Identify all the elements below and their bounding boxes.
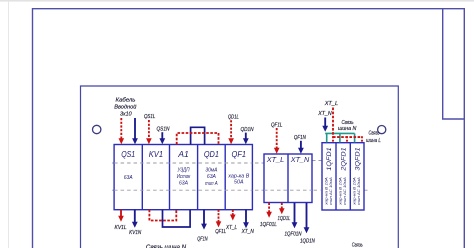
svg-text:QF1L: QF1L xyxy=(215,229,226,235)
svg-text:QS1N: QS1N xyxy=(156,127,170,133)
svg-text:3х10: 3х10 xyxy=(120,111,132,117)
svg-text:A1: A1 xyxy=(177,150,189,159)
svg-text:1QD1L: 1QD1L xyxy=(278,216,291,222)
svg-text:1QD1N: 1QD1N xyxy=(300,238,315,244)
svg-text:QD1L: QD1L xyxy=(228,115,239,121)
svg-text:XT_L: XT_L xyxy=(266,155,285,164)
svg-text:3QFD1: 3QFD1 xyxy=(355,147,362,171)
svg-text:Связь: Связь xyxy=(369,131,380,137)
svg-text:QS1L: QS1L xyxy=(144,114,156,120)
svg-text:QF1N: QF1N xyxy=(197,237,208,243)
svg-text:30мА: 30мА xyxy=(205,168,218,174)
svg-text:тип АС 10мА: тип АС 10мА xyxy=(342,177,347,205)
svg-text:Вводной: Вводной xyxy=(114,103,137,110)
svg-text:QS1: QS1 xyxy=(121,150,135,159)
svg-text:2QFD1: 2QFD1 xyxy=(340,147,347,172)
svg-text:шина L: шина L xyxy=(366,138,381,144)
svg-text:XT_L: XT_L xyxy=(324,101,338,107)
svg-text:QD1: QD1 xyxy=(204,150,219,159)
svg-text:XT_L: XT_L xyxy=(225,225,237,231)
svg-text:Исток: Исток xyxy=(177,174,191,180)
svg-text:УЗДП: УЗДП xyxy=(177,167,189,173)
svg-text:QD1N: QD1N xyxy=(240,127,254,133)
svg-text:тип А: тип А xyxy=(205,181,218,187)
svg-text:KV1: KV1 xyxy=(149,150,163,159)
svg-text:QF1L: QF1L xyxy=(271,122,282,128)
svg-text:KV1N: KV1N xyxy=(129,230,142,236)
svg-text:63А: 63А xyxy=(207,174,217,180)
svg-text:Связь: Связь xyxy=(352,243,363,248)
svg-text:1QF01L: 1QF01L xyxy=(260,222,277,228)
svg-text:QF1N: QF1N xyxy=(294,135,307,141)
svg-text:1QF01N: 1QF01N xyxy=(285,231,303,237)
svg-text:Связь: Связь xyxy=(342,120,354,126)
svg-text:XT_N: XT_N xyxy=(290,155,310,164)
svg-text:63А: 63А xyxy=(124,175,134,181)
svg-text:Кабель: Кабель xyxy=(116,98,136,104)
svg-text:XT_N: XT_N xyxy=(241,229,255,235)
svg-text:тип АС 10мА: тип АС 10мА xyxy=(356,177,361,205)
svg-text:KV1L: KV1L xyxy=(115,225,127,231)
svg-text:шина N: шина N xyxy=(338,126,357,132)
svg-text:хар-ка В: хар-ка В xyxy=(227,173,250,179)
svg-text:50А: 50А xyxy=(234,180,244,186)
svg-text:1QFD1: 1QFD1 xyxy=(326,147,333,171)
svg-text:тип АС 10мА: тип АС 10мА xyxy=(328,177,333,205)
svg-text:63А: 63А xyxy=(179,181,189,187)
svg-text:QF1: QF1 xyxy=(232,150,247,159)
svg-text:Связь шина N: Связь шина N xyxy=(146,244,187,248)
svg-text:XT_N: XT_N xyxy=(317,111,332,117)
